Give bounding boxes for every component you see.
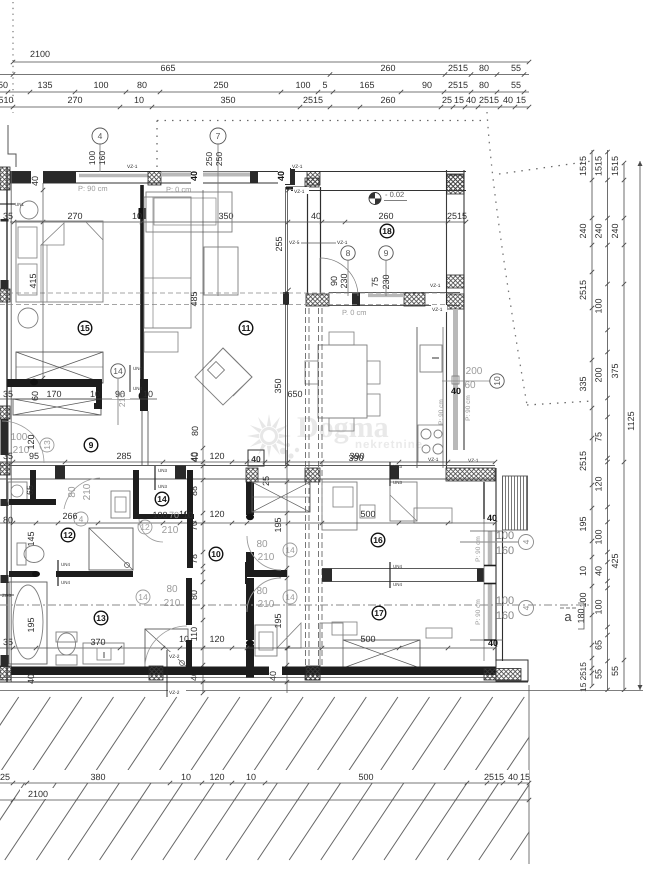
svg-text:80: 80 [190,426,200,436]
svg-text:VZ-1: VZ-1 [337,240,348,246]
room 11 number [239,321,253,335]
svg-text:P: 90 cm: P: 90 cm [475,536,482,562]
svg-text:100: 100 [152,510,167,520]
dotted terrace curve right [487,112,527,405]
circle fixture room15 [18,308,38,328]
svg-text:180: 180 [576,608,586,623]
closet corridor [252,482,310,512]
svg-text:10: 10 [90,389,100,399]
svg-text:375: 375 [610,363,620,378]
wc room14 [155,492,169,506]
bed room 15 [16,221,103,302]
svg-text:P: 90 cm: P: 90 cm [438,399,445,425]
svg-text:65: 65 [594,640,604,650]
svg-text:160: 160 [496,610,514,622]
VZ-2 tags [166,650,168,697]
svg-text:13: 13 [96,613,106,623]
wall between 16/17 [322,568,484,570]
svg-text:UN3: UN3 [158,484,167,489]
svg-text:40: 40 [26,674,36,684]
svg-text:100: 100 [496,530,514,542]
svg-text:40: 40 [276,171,286,181]
svg-text:50: 50 [0,80,8,90]
svg-text:9: 9 [384,248,389,258]
svg-text:nekretnine: nekretnine [355,439,423,451]
watermark logo [247,414,291,458]
svg-text:UN1: UN1 [15,202,24,207]
svg-text:40: 40 [251,454,261,464]
svg-text:100: 100 [594,529,604,544]
door room12 [64,478,100,509]
svg-text:390: 390 [349,451,364,461]
shower room13 [145,629,188,668]
svg-text:10: 10 [143,389,153,399]
svg-text:100: 100 [594,298,604,313]
tv sideboard [204,247,238,295]
window P:0 top (living) [161,173,250,177]
svg-text:40: 40 [594,566,604,576]
svg-text:120: 120 [594,476,604,491]
svg-text:425: 425 [610,553,620,568]
bottom exterior wall [11,667,496,676]
room numbers 16/17 [371,533,385,547]
svg-text:10: 10 [183,510,193,520]
svg-text:VZ-2: VZ-2 [169,690,180,696]
svg-text:485: 485 [189,291,199,306]
interior dim line y=222 [10,221,466,223]
room 18 [380,224,394,238]
wardrobe room15 [16,352,103,383]
bottom dim row 1 [0,770,529,783]
svg-text:40: 40 [311,211,321,221]
svg-text:210: 210 [258,552,275,563]
corridor top wall [0,465,495,467]
dashed lines across living [0,292,455,294]
svg-text:415: 415 [28,273,38,288]
svg-text:40: 40 [189,452,199,462]
svg-text:210: 210 [82,483,93,500]
svg-text:35: 35 [3,451,13,461]
door bubbles 8 and 9 [341,246,355,260]
svg-text:12: 12 [140,522,150,532]
svg-text:270: 270 [67,95,82,105]
svg-text:25: 25 [0,772,10,782]
svg-text:VZ-1: VZ-1 [294,189,305,195]
svg-text:40: 40 [268,671,278,681]
svg-text:80: 80 [479,80,489,90]
svg-text:80: 80 [3,515,13,525]
svg-text:160: 160 [97,151,107,165]
svg-text:250: 250 [213,80,228,90]
svg-text:40: 40 [30,176,40,186]
wall room15 bottom [7,379,96,387]
svg-text:14: 14 [285,545,295,555]
kitchen right exterior wall [446,170,448,468]
section dash line a [0,604,592,606]
svg-text:13: 13 [42,440,52,450]
sofa [144,197,191,328]
svg-text:40: 40 [508,772,518,782]
room17 furniture [426,628,452,638]
right dim column 1 [591,150,593,686]
door room13 from corridor9 [2,421,44,463]
svg-text:VZ-1: VZ-1 [127,164,138,170]
svg-text:230: 230 [339,273,349,288]
dotted terrace line top [157,120,487,122]
svg-text:210: 210 [258,599,275,610]
svg-text:500: 500 [360,509,375,519]
svg-text:100: 100 [87,151,97,165]
svg-text:266: 266 [62,511,77,521]
svg-text:145: 145 [26,531,36,546]
UN4 tags wall15 [129,365,131,392]
svg-text:8: 8 [346,248,351,258]
svg-text:335: 335 [578,376,588,391]
bathtub [9,582,47,664]
vertical dim 415 [42,183,44,381]
closet below [13,399,101,415]
left exterior wall [6,167,8,682]
svg-text:230: 230 [381,274,391,289]
svg-text:12: 12 [63,530,73,540]
wall 12/13 [9,571,36,577]
svg-text:270: 270 [67,211,82,221]
svg-text:9: 9 [89,440,94,450]
dim line y=645 [0,647,495,649]
window P:90 top [79,174,148,177]
room 10 circle [209,547,223,561]
svg-text:40: 40 [488,638,498,648]
svg-text:2515: 2515 [447,211,467,221]
UN4 tags left [57,560,59,586]
svg-text:1125: 1125 [626,411,636,430]
ground hatch band [0,697,619,860]
washbasin top-left [20,201,38,219]
svg-text:P: 90 cm: P: 90 cm [78,184,108,193]
svg-text:4: 4 [79,514,84,524]
svg-text:2515: 2515 [303,95,323,105]
svg-text:2100: 2100 [28,789,48,799]
svg-text:160: 160 [496,545,514,557]
toilet room12 [17,543,26,565]
svg-text:35: 35 [3,637,13,647]
svg-text:135: 135 [37,80,52,90]
svg-text:650: 650 [287,389,302,399]
svg-text:195: 195 [578,516,588,531]
svg-text:18: 18 [382,226,392,236]
shaft dashed verticals [305,308,307,668]
sliding door P.0 kitchen [368,294,404,297]
svg-text:370: 370 [90,637,105,647]
corridor desk bottom [255,625,277,656]
svg-text:35: 35 [3,211,13,221]
grid bubble 4 [92,128,108,144]
svg-text:UN4: UN4 [61,580,70,585]
svg-text:120: 120 [209,634,224,644]
svg-text:665: 665 [160,63,175,73]
svg-text:P: 90 cm: P: 90 cm [465,395,472,421]
right dim column 2 [607,150,609,690]
svg-text:40: 40 [189,171,199,181]
svg-text:10: 10 [134,95,144,105]
svg-text:2515: 2515 [484,772,504,782]
svg-text:40: 40 [466,95,476,105]
svg-text:195: 195 [26,617,36,632]
svg-text:14: 14 [157,494,167,504]
svg-text:240: 240 [610,223,620,238]
svg-text:25: 25 [442,95,452,105]
svg-text:250: 250 [204,152,214,166]
svg-text:UN3: UN3 [158,468,167,473]
svg-text:80: 80 [166,584,178,595]
svg-text:14: 14 [138,592,148,602]
svg-text:11: 11 [242,323,251,333]
top dotted gridline [12,2,14,113]
svg-text:65: 65 [25,485,35,495]
svg-text:195: 195 [273,517,283,532]
svg-text:2100: 2100 [30,49,50,59]
svg-text:350: 350 [220,95,235,105]
VZ tags [126,162,142,169]
svg-text:10: 10 [181,772,191,782]
svg-text:- 0.02: - 0.02 [385,190,404,199]
bottom wall inner line [0,677,496,679]
svg-text:80: 80 [137,80,147,90]
svg-text:200: 200 [594,367,604,382]
svg-text:17: 17 [374,608,384,618]
washbasin区 room12 [8,482,27,502]
svg-text:P: 90 cm: P: 90 cm [475,599,482,625]
svg-text:15 2515: 15 2515 [579,662,588,692]
svg-text:2515: 2515 [578,280,588,300]
svg-text:35: 35 [3,389,13,399]
svg-text:25: 25 [261,476,271,486]
washbasin room13 [83,643,124,664]
corridor dim x=203 [202,190,204,693]
shower room12 [89,528,133,570]
room 15 number [78,321,92,335]
svg-text:285: 285 [116,451,131,461]
40 box column [248,450,264,466]
top-left step outline [8,125,16,167]
svg-text:VZ-5: VZ-5 [289,240,300,246]
svg-text:250: 250 [214,152,224,166]
room16 furniture [322,482,357,530]
svg-text:4: 4 [521,605,531,610]
svg-text:255: 255 [274,236,284,251]
svg-text:10: 10 [132,211,142,221]
svg-text:170: 170 [46,389,61,399]
svg-text:110: 110 [189,627,199,641]
svg-text:80: 80 [256,539,268,550]
glazing band right [453,309,458,450]
svg-text:2515: 2515 [448,80,468,90]
svg-text:2515: 2515 [479,95,499,105]
wall room15/living [140,185,144,410]
toilet room13 [56,632,77,642]
svg-text:95: 95 [29,451,39,461]
svg-text:15: 15 [520,772,530,782]
svg-text:100: 100 [594,599,604,614]
svg-text:60: 60 [464,380,476,391]
svg-text:7: 7 [216,131,221,141]
svg-text:40: 40 [451,386,461,396]
svg-text:UN4: UN4 [133,366,142,371]
svg-text:2515: 2515 [448,63,468,73]
right dim column 3 [623,163,625,690]
svg-text:195: 195 [273,613,283,628]
svg-text:210: 210 [117,393,127,407]
sink/burners [418,425,443,462]
room9 [84,438,98,452]
right dim column 4 (1125) [639,161,641,690]
svg-text:120: 120 [209,451,224,461]
svg-text:510: 510 [0,95,14,105]
kitchen counter [416,327,418,468]
svg-text:14: 14 [113,366,123,376]
svg-text:14: 14 [285,592,295,602]
svg-text:210: 210 [162,525,179,536]
svg-text:55: 55 [511,63,521,73]
dim row 510/270/10/350 [0,106,529,108]
grid bubble 7 [210,128,226,144]
svg-text:VZ-1: VZ-1 [432,307,443,313]
svg-text:55: 55 [594,669,604,679]
svg-text:40: 40 [487,513,497,523]
svg-text:90: 90 [422,80,432,90]
bottom-right step [496,660,528,681]
svg-text:165: 165 [359,80,374,90]
svg-text:15: 15 [454,95,464,105]
svg-text:500: 500 [358,772,373,782]
svg-text:P. 0 cm: P. 0 cm [342,308,366,317]
svg-text:VZ-1: VZ-1 [292,164,303,170]
dim row 2100 [13,61,529,63]
svg-text:UN4: UN4 [393,564,402,569]
svg-text:55: 55 [610,666,620,676]
triangle mark [277,623,301,648]
svg-text:10: 10 [211,549,221,559]
room12 [61,528,75,542]
svg-text:260: 260 [378,211,393,221]
door arc 8 [320,258,358,296]
svg-text:120: 120 [209,509,224,519]
bubble 14 [111,364,125,378]
bottom dim row 2100 [20,788,60,799]
svg-text:10: 10 [246,772,256,782]
svg-text:a: a [564,609,572,624]
svg-text:40: 40 [503,95,513,105]
corridor wall x=250 [246,482,254,515]
svg-text:75: 75 [370,277,380,287]
dim row 665/260/2515/80/55 [0,74,529,76]
svg-text:260: 260 [380,63,395,73]
svg-text:VZ-1: VZ-1 [430,283,441,289]
svg-text:100: 100 [295,80,310,90]
svg-text:ZOB: ZOB [2,593,11,598]
svg-text:210: 210 [164,598,181,609]
svg-text:200: 200 [466,366,483,377]
UN3/UN4 tags right [389,462,391,486]
svg-text:55: 55 [511,80,521,90]
datum symbol [369,193,381,205]
kitchen left wall [307,187,309,294]
svg-text:1515: 1515 [610,156,620,176]
living right wall [285,187,287,466]
dining table [318,345,367,418]
svg-text:80: 80 [479,63,489,73]
svg-text:60: 60 [30,391,40,401]
pergola striped box [503,476,528,530]
svg-text:UN3: UN3 [393,480,402,485]
svg-text:2515: 2515 [578,451,588,471]
svg-text:350: 350 [218,211,233,221]
svg-text:120: 120 [209,772,224,782]
dim line y=520 [0,522,495,524]
svg-text:UN4: UN4 [133,386,142,391]
dim line y=399 [0,398,157,400]
svg-text:15: 15 [80,323,90,333]
room13 [94,611,108,625]
corridor9 boundary lines [141,411,143,466]
svg-text:80: 80 [256,586,268,597]
dim line y=462 [0,461,495,463]
svg-text:P: 0 cm: P: 0 cm [166,185,191,194]
svg-text:70: 70 [169,510,179,520]
svg-text:VZ-1: VZ-1 [468,458,479,464]
svg-text:10: 10 [492,376,502,386]
svg-text:UN4: UN4 [393,582,402,587]
dim row 135/100/80/250/100/165/90 [0,91,529,93]
mid wall stub [246,570,287,577]
svg-text:10: 10 [578,566,588,576]
svg-text:100: 100 [93,80,108,90]
svg-text:5: 5 [322,80,327,90]
svg-text:240: 240 [578,223,588,238]
svg-text:4: 4 [98,131,103,141]
rotated diamond decor [195,348,252,405]
kitchen mid wall w/ hatch [329,292,460,294]
svg-text:380: 380 [90,772,105,782]
rooms right wall [495,468,497,661]
svg-text:UN4: UN4 [61,562,70,567]
svg-text:16: 16 [373,535,383,545]
svg-text:80: 80 [67,486,78,498]
svg-text:500: 500 [360,634,375,644]
svg-text:75: 75 [594,432,604,442]
svg-text:260: 260 [380,95,395,105]
svg-text:240: 240 [594,223,604,238]
svg-text:4: 4 [521,539,531,544]
svg-text:VZ-2: VZ-2 [169,654,180,660]
top exterior wall [10,171,466,173]
svg-text:15: 15 [516,95,526,105]
hatch band right edge [528,685,530,864]
svg-text:UN3: UN3 [393,464,402,469]
svg-text:90: 90 [329,276,339,286]
svg-text:1515: 1515 [594,156,604,176]
svg-text:350: 350 [273,378,283,393]
door room13 right [145,626,187,666]
svg-text:120: 120 [26,434,36,449]
svg-text:1515: 1515 [578,156,588,176]
